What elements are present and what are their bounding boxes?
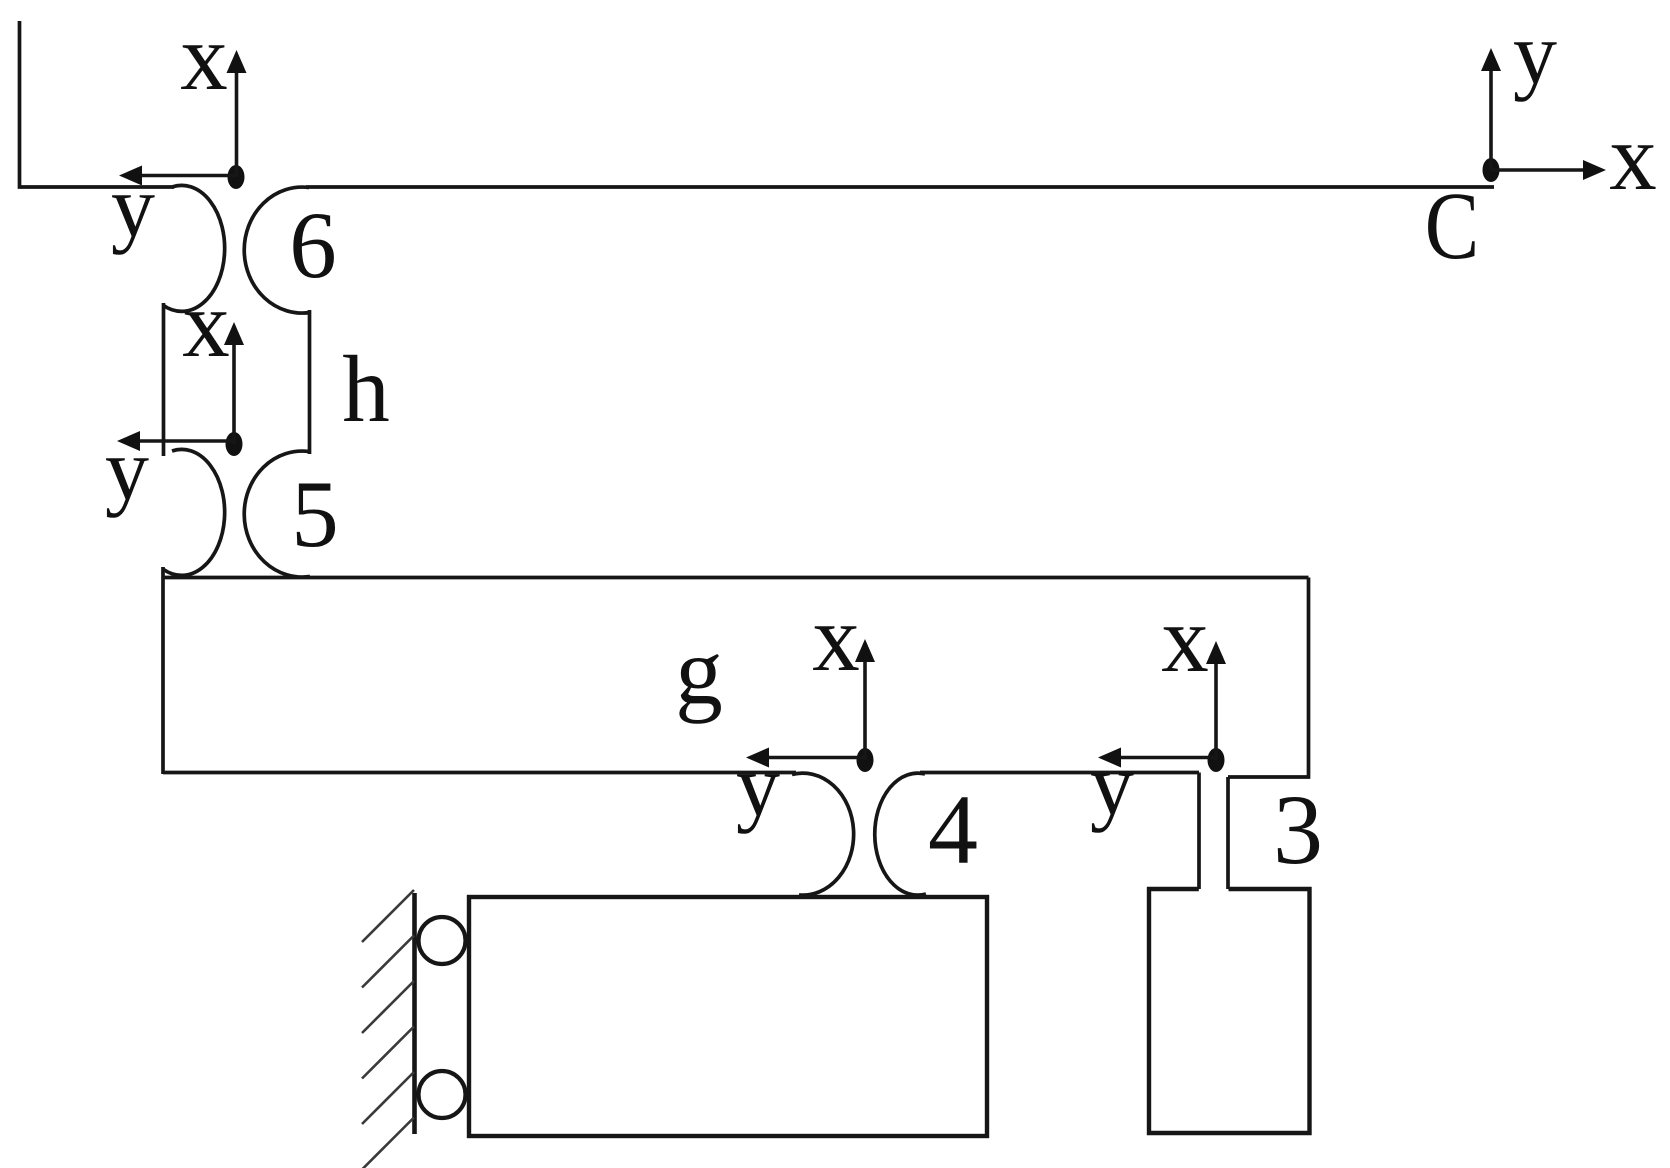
svg-text:y: y — [1090, 737, 1134, 834]
wire link-2 right shoulder edge — [1228, 578, 1309, 778]
svg-text:g: g — [675, 618, 723, 724]
svg-text:C: C — [1425, 174, 1479, 280]
svg-text:x: x — [1609, 104, 1657, 210]
flexure hinge 4 left notch arc — [792, 773, 854, 895]
wire h-bar left edge — [162, 303, 166, 456]
svg-text:x: x — [180, 4, 228, 110]
wire link-2 top edge — [163, 576, 1309, 580]
lower-right block — [1149, 889, 1310, 1133]
svg-text:4: 4 — [928, 774, 978, 885]
svg-text:y: y — [736, 738, 780, 835]
frame at hinge 4: y axis arrow left — [769, 756, 865, 760]
ground hatching — [362, 890, 414, 1168]
frame at hinge 6: x axis arrow up — [119, 50, 247, 186]
ground wall line — [412, 893, 417, 1134]
svg-text:h: h — [342, 336, 390, 442]
frame at hinge 6: y axis arrow left — [142, 174, 236, 178]
svg-text:y: y — [1513, 6, 1557, 103]
frame at hinge 4: origin dot — [857, 748, 874, 772]
roller upper — [419, 917, 466, 964]
frame at hinge 3: origin dot — [1208, 748, 1225, 772]
wire top-left vertical tail and top beam left segment — [20, 21, 175, 187]
svg-text:x: x — [1161, 586, 1209, 692]
wire link-2 left edge — [161, 567, 165, 774]
flexure hinge 5 left notch arc — [164, 449, 225, 575]
slider block (large, with rollers) — [469, 897, 987, 1136]
flexure hinge 6 right notch arc — [244, 187, 310, 313]
flexure hinge 3 leaf left edge — [1197, 773, 1201, 890]
frame at hinge 6: origin dot — [228, 165, 245, 189]
roller lower — [419, 1071, 466, 1118]
frame at hinge 3: x axis arrow up — [1098, 641, 1226, 768]
wire top beam right segment to C — [306, 185, 1494, 189]
frame C: origin dot — [1483, 158, 1500, 182]
frame at hinge 5: x axis arrow up — [117, 322, 244, 451]
flexure hinge 4 right notch arc — [875, 773, 926, 895]
svg-text:x: x — [182, 271, 230, 377]
flexure hinge 6 left notch arc — [164, 185, 225, 311]
svg-text:x: x — [812, 585, 860, 691]
svg-text:y: y — [105, 422, 149, 519]
frame at hinge 3: y axis arrow left — [1121, 756, 1216, 760]
frame C: y axis arrow up — [1481, 48, 1606, 180]
svg-text:y: y — [111, 159, 155, 256]
frame C: x axis arrow right — [1491, 168, 1583, 172]
svg-text:6: 6 — [289, 192, 337, 298]
wire link-2 bottom edge mid segment — [920, 771, 1199, 775]
flexure hinge 5 right notch arc — [244, 451, 310, 577]
wire h-bar right edge — [308, 310, 312, 454]
frame at hinge 5: y axis arrow left — [140, 439, 234, 443]
frame at hinge 5: origin dot — [226, 432, 243, 456]
frame at hinge 4: x axis arrow up — [746, 639, 875, 768]
svg-text:5: 5 — [291, 461, 339, 567]
flexure hinge 3 leaf right edge — [1226, 777, 1230, 889]
wire link-2 bottom edge left segment — [163, 771, 796, 775]
svg-text:3: 3 — [1273, 774, 1323, 885]
